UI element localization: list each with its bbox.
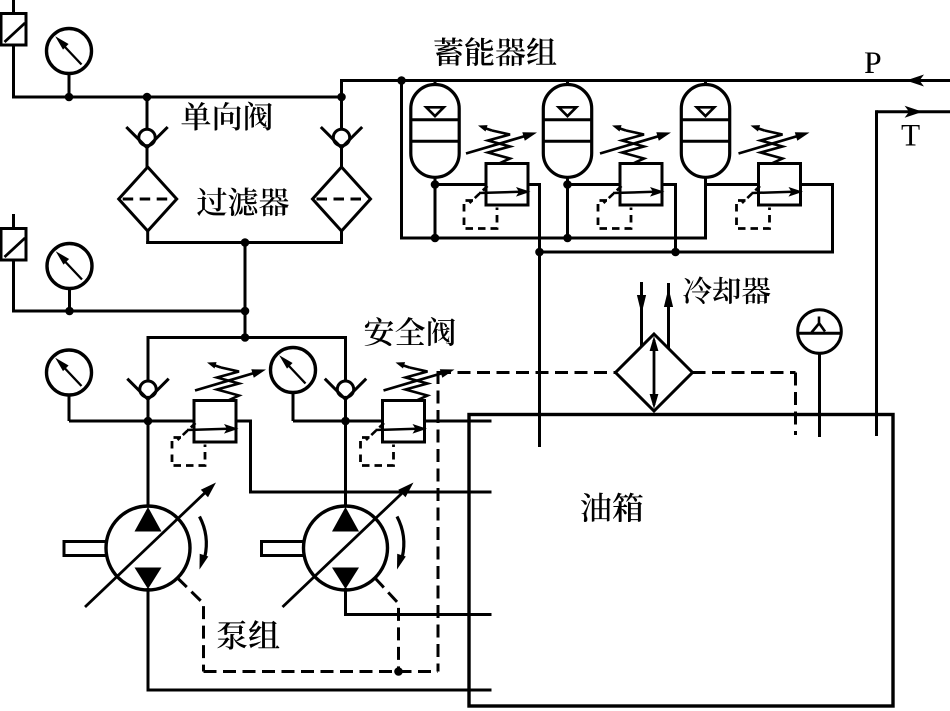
label accumulator group	[434, 37, 556, 66]
wire AC1 drop	[434, 177, 437, 238]
wire CV3 to pump P1	[147, 399, 150, 508]
label oil tank	[581, 493, 643, 522]
wire filter bus to pump bus	[244, 243, 247, 338]
wire PG4 stem	[292, 392, 295, 422]
label cooler	[683, 276, 770, 304]
wire drop to CV3	[147, 338, 150, 382]
relief valve RV1 spring	[466, 125, 537, 163]
label safety valve	[365, 317, 455, 346]
filter F2	[313, 167, 371, 231]
wire pump bus	[147, 336, 348, 339]
node filter-bus junction	[241, 238, 250, 247]
accumulator AC2 stub	[566, 81, 569, 87]
relief valve RV2	[598, 164, 665, 229]
check valve CV3	[127, 379, 168, 400]
label P	[865, 53, 880, 73]
node CV1-junction	[143, 93, 152, 102]
wire AC2 to RV2	[568, 183, 622, 186]
relief valve RV2 spring	[600, 125, 671, 163]
pump P1	[64, 483, 216, 608]
label check valve	[181, 102, 272, 131]
cooler pipe in	[640, 282, 643, 347]
pressure gauge PG2	[47, 244, 92, 289]
wire CV2 to filter F2	[340, 148, 343, 168]
wire drain into tank	[538, 415, 541, 447]
pressure gauge PG1	[47, 29, 92, 74]
node AC1 bus	[431, 234, 440, 243]
relief valve RV4 spring	[195, 362, 266, 400]
relief valve RV3	[737, 164, 804, 229]
arrow cooler out	[664, 288, 673, 307]
node AC2 bus	[563, 234, 572, 243]
node RV1 drain junction	[535, 248, 544, 257]
tank (oil reservoir)	[469, 415, 893, 707]
pump P2	[262, 483, 414, 608]
cooler HX1	[616, 334, 693, 411]
wire CV4 to pump P2	[344, 399, 347, 508]
thermometer TG1	[798, 310, 842, 354]
node PG1-junction	[65, 93, 74, 102]
wire T return line	[877, 110, 950, 113]
wire drain bus B	[540, 251, 833, 254]
relief valve RV5 spring	[384, 362, 455, 400]
pressure switch B2	[1, 229, 26, 261]
wire T riser	[875, 110, 878, 436]
check valve CV2	[321, 127, 362, 148]
wire P1 outlet	[147, 588, 150, 692]
wire RV2 outlet	[661, 183, 678, 186]
filter F1	[119, 167, 177, 231]
label T	[902, 125, 920, 145]
pilot line P1 control	[178, 578, 204, 672]
node pump-bus junction	[241, 333, 250, 342]
accumulator AC2	[543, 85, 591, 178]
relief valve RV5	[361, 401, 428, 466]
wire CV1 to filter F1	[146, 148, 149, 168]
wire PG1 stem	[68, 73, 71, 98]
wire F2 drop	[340, 231, 343, 244]
pilot line P2 control	[375, 578, 399, 672]
wire P supply line	[342, 79, 950, 82]
check valve CV1	[126, 127, 167, 148]
wire RV3 outlet	[800, 183, 834, 186]
arrow P flow	[906, 75, 924, 87]
wire B2 drop	[12, 259, 15, 313]
relief valve RV1	[464, 164, 531, 229]
wire PG3 stem	[68, 394, 71, 421]
node AC1 tee	[431, 180, 440, 189]
label filter	[197, 187, 289, 216]
node AC2 tee	[563, 180, 572, 189]
wire riser to P line	[340, 79, 343, 97]
wire drop to CV4	[344, 338, 347, 382]
wire RV4 outlet	[236, 420, 252, 423]
node corner main-P	[337, 93, 346, 102]
node P-branch	[397, 76, 406, 85]
node PG4-line junction	[341, 417, 350, 426]
accumulator AC3 stub	[704, 81, 707, 87]
wire AC1 to RV1	[435, 183, 488, 186]
node PG3-line junction	[144, 417, 153, 426]
cooler pipe out	[667, 283, 670, 349]
pressure gauge PG3	[47, 350, 92, 395]
arrow T flow	[905, 106, 923, 118]
node pilot junction	[394, 667, 403, 676]
wire P2 outlet	[344, 588, 347, 616]
wire RV1 outlet	[528, 183, 541, 186]
node bus-tap	[241, 307, 250, 316]
wire to check valve CV2	[340, 97, 343, 131]
wire AC3 drop	[704, 177, 707, 240]
pilot line drain to tank	[693, 371, 796, 374]
wire AC2 drop	[566, 177, 569, 238]
wire accumulator branch riser	[400, 81, 403, 240]
wire to check valve CV1	[146, 97, 149, 131]
accumulator AC3	[681, 85, 729, 178]
pressure switch B1	[1, 14, 26, 46]
label pump group	[217, 620, 279, 649]
wire AC3 to RV3	[706, 183, 761, 186]
accumulator AC1	[411, 85, 459, 178]
arrow cooler in	[637, 295, 646, 314]
wire F1 drop	[146, 231, 149, 244]
wire B1 to main line	[12, 45, 15, 99]
relief valve RV3 spring	[739, 125, 810, 163]
relief valve RV4	[172, 401, 239, 466]
wire accumulator bus A	[400, 237, 706, 240]
wire TG1 stem	[818, 353, 821, 437]
pilot line drain top	[438, 371, 616, 374]
node PG2-junction	[65, 307, 74, 316]
wire filter bus	[146, 241, 343, 244]
cooler flow arrow	[653, 340, 656, 405]
pressure gauge PG4	[271, 348, 316, 393]
node RV2 drain junction	[671, 248, 680, 257]
wire RV5 outlet to tank	[425, 420, 492, 423]
wire PG2 stem	[68, 288, 71, 312]
pilot line drain riser	[437, 371, 440, 672]
accumulator AC1 stub	[434, 81, 437, 87]
pilot line pump-group bottom	[204, 670, 439, 673]
check valve CV4	[325, 379, 366, 400]
